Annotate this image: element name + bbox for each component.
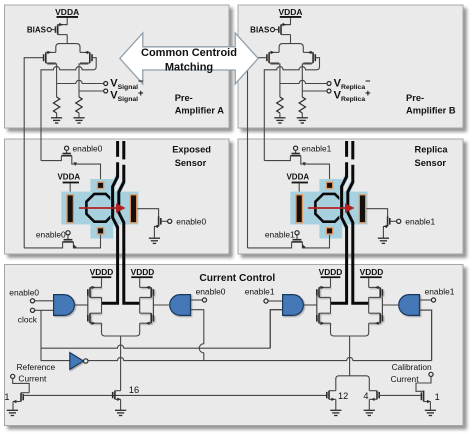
svg-text:enable1: enable1 bbox=[265, 229, 295, 239]
NMOS N2 (right half) bbox=[369, 313, 383, 323]
svg-text:VDDD: VDDD bbox=[90, 267, 114, 277]
ground T2 (Replica Sensor) bbox=[378, 238, 389, 243]
electrode right (Exposed Sensor) bbox=[130, 195, 136, 223]
wire M3 gate return to sensor (A) bbox=[41, 58, 96, 161]
ground MR1 bbox=[7, 410, 18, 415]
wire clock line A bbox=[41, 345, 270, 348]
wire clock line A to right G1 bbox=[270, 310, 282, 349]
electrode left (Exposed Sensor) bbox=[67, 195, 73, 223]
wire VDDD2 to P2 (left half) bbox=[139, 278, 141, 287]
thick heater wire left (replica) bbox=[342, 176, 347, 228]
electrode top (Replica Sensor) bbox=[326, 182, 332, 188]
transistor MR1 (1x reference) bbox=[20, 393, 22, 402]
sensor octagon heater (Replica Sensor) bbox=[315, 194, 342, 222]
wire tail node (A) bbox=[66, 35, 68, 44]
wire output plus (A) bbox=[79, 90, 104, 92]
svg-text:Exposed: Exposed bbox=[172, 145, 211, 155]
wire N1 source down (right half) bbox=[330, 323, 332, 332]
wire VDDA to left electrode (Exposed Sensor) bbox=[69, 183, 71, 194]
svg-text:1: 1 bbox=[4, 392, 9, 402]
block Current Control bbox=[5, 265, 464, 426]
wire tail stem down (right half) bbox=[349, 336, 351, 376]
wire VDDD1 to P1 (left half) bbox=[101, 278, 103, 287]
NMOS N2 (left half) bbox=[140, 313, 154, 323]
port VSignal minus (A) bbox=[104, 82, 108, 86]
enable transistor T2 right (Replica Sensor) bbox=[366, 209, 387, 217]
electrode bottom (Exposed Sensor) bbox=[97, 228, 103, 234]
clock input port (left half) bbox=[35, 309, 54, 311]
svg-text:Sensor: Sensor bbox=[175, 158, 207, 168]
red arrow (Exposed Sensor) bbox=[79, 207, 118, 209]
electrode right (Replica Sensor) bbox=[359, 195, 365, 223]
AND gate G2 mirrored (right half) bbox=[399, 295, 420, 316]
svg-text:enable0: enable0 bbox=[36, 229, 66, 239]
resistor R1 (A) bbox=[53, 97, 59, 113]
wire VDDD1 to P1 (right half) bbox=[330, 278, 332, 287]
ground R2 (A) bbox=[73, 118, 84, 123]
port VReplica plus (B) bbox=[327, 89, 331, 93]
svg-text:BIAS: BIAS bbox=[27, 26, 47, 35]
svg-text:Reference: Reference bbox=[17, 362, 56, 372]
AND gate G1 (right half) bbox=[283, 295, 304, 316]
svg-text:1: 1 bbox=[435, 392, 440, 402]
svg-text:Calibration: Calibration bbox=[392, 362, 432, 372]
svg-text:enable1: enable1 bbox=[302, 144, 332, 154]
block Pre-Amplifier B bbox=[238, 5, 463, 128]
ground MC1 bbox=[425, 410, 436, 415]
svg-text:VDDD: VDDD bbox=[360, 267, 384, 277]
wire M3 drain (B) bbox=[302, 63, 313, 97]
wire VDDA to left electrode (Replica Sensor) bbox=[298, 183, 300, 194]
wire G2 output (right half) bbox=[382, 304, 399, 306]
svg-text:enable0: enable0 bbox=[196, 287, 226, 297]
svg-text:VDDD: VDDD bbox=[319, 267, 343, 277]
wire line B to right G2 bbox=[420, 310, 432, 361]
wire output minus (B) bbox=[280, 80, 327, 83]
wire tail stem down (left half) bbox=[120, 336, 122, 391]
wire G2 output (left half) bbox=[153, 304, 170, 306]
AND gate G2 mirrored (left half) bbox=[170, 295, 191, 316]
wire tail node (B) bbox=[290, 35, 292, 44]
wire T1 left (Exposed Sensor) bbox=[41, 156, 61, 161]
wire M3 gate return to sensor (B) bbox=[264, 58, 319, 161]
sensor octagon heater (Exposed Sensor) bbox=[86, 194, 113, 222]
svg-text:Pre-: Pre- bbox=[406, 93, 424, 103]
wire VDDD2 to P2 (right half) bbox=[368, 278, 370, 287]
wire G2 lower input (left half) bbox=[191, 310, 204, 361]
wire T3 right to bottom electrode (Replica Sensor) bbox=[302, 235, 329, 248]
CMOS pair left gates (left half) bbox=[87, 289, 89, 321]
NMOS N1 (right half) bbox=[317, 313, 331, 323]
wire P1/N1 drain node (left half) bbox=[101, 297, 103, 313]
wire T3 right to bottom electrode (Exposed Sensor) bbox=[73, 235, 100, 248]
svg-text:Amplifier B: Amplifier B bbox=[406, 106, 456, 116]
ground R2 (B) bbox=[297, 118, 308, 123]
wire N2 source down (right half) bbox=[368, 323, 370, 332]
NMOS N1 (left half) bbox=[88, 313, 102, 323]
red arrow (Replica Sensor) bbox=[308, 207, 347, 209]
CMOS pair right gates (right half) bbox=[381, 289, 383, 321]
transistor M4 (4x replica) bbox=[376, 391, 378, 400]
wire T2 source to ground (Exposed Sensor) bbox=[154, 226, 158, 238]
BIAS port (B) bbox=[273, 29, 279, 31]
enable0 input port G2 (left half) bbox=[191, 299, 203, 301]
block Pre-Amplifier A bbox=[5, 5, 230, 128]
wire G1 output (right half) bbox=[304, 304, 317, 306]
wire N2 source down (left half) bbox=[139, 323, 141, 332]
wire sources join bar (left half) bbox=[102, 333, 140, 337]
svg-text:12: 12 bbox=[338, 391, 348, 401]
thick heater wire right (replica) bbox=[348, 182, 353, 223]
svg-text:BIAS: BIAS bbox=[250, 26, 270, 35]
wire T3 left (Replica Sensor) bbox=[248, 242, 292, 248]
PMOS P2 (right half) bbox=[369, 287, 383, 297]
PMOS P1 (left half) bbox=[88, 287, 102, 297]
wire cal port to MC1 drain bbox=[416, 377, 431, 392]
sensor body (Replica Sensor) bbox=[290, 192, 367, 225]
svg-text:enable1: enable1 bbox=[425, 287, 455, 297]
wire inverted clock line B bbox=[88, 357, 432, 360]
wire VDDA to M1 (A) bbox=[58, 18, 67, 25]
diff pair right transistor M3 (A) bbox=[89, 52, 91, 63]
wire calibration gate bus bbox=[379, 394, 421, 396]
double arrow Common Centroid Matching bbox=[120, 33, 258, 84]
wire P2/N2 drain node (left half) bbox=[139, 297, 141, 313]
BIAS port (A) bbox=[50, 29, 56, 31]
enable1 input port G1 (right half) bbox=[268, 300, 282, 302]
wire T1 right to top electrode (Exposed Sensor) bbox=[72, 156, 101, 182]
bias transistor M1 (A) bbox=[57, 25, 59, 35]
svg-text:Matching: Matching bbox=[165, 62, 213, 74]
svg-text:Current Control: Current Control bbox=[199, 273, 275, 284]
wire P1/N1 drain node (right half) bbox=[330, 297, 332, 313]
wire 12/4 drain node bbox=[336, 376, 370, 391]
CMOS pair left gates (right half) bbox=[316, 289, 318, 321]
svg-text:enable1: enable1 bbox=[245, 287, 275, 297]
transistor M16 (16x exposed) bbox=[114, 391, 116, 400]
thick heater wire left (exposed) bbox=[113, 176, 118, 228]
svg-text:clock: clock bbox=[18, 314, 38, 324]
thick heater wire right (exposed) bbox=[119, 182, 124, 223]
svg-text:Current: Current bbox=[18, 373, 47, 383]
resistor R2 (B) bbox=[299, 97, 305, 113]
AND gate G1 (left half) bbox=[54, 295, 75, 316]
svg-text:VDDA: VDDA bbox=[57, 172, 80, 181]
diff pair right transistor M3 (B) bbox=[312, 52, 314, 63]
wire M2 drain (B) bbox=[269, 63, 280, 97]
electrode bottom (Replica Sensor) bbox=[326, 228, 332, 234]
svg-text:enable0: enable0 bbox=[176, 216, 206, 226]
svg-text:VDDA: VDDA bbox=[278, 7, 302, 17]
wire M2 gate down to sensor (A) bbox=[24, 58, 43, 248]
svg-text:VDDA: VDDA bbox=[55, 7, 79, 17]
wire T3 left (Exposed Sensor) bbox=[24, 242, 62, 248]
svg-text:enable1: enable1 bbox=[405, 216, 435, 226]
wire G2 lower input (right half) bbox=[420, 310, 432, 361]
inverter U1 bbox=[70, 353, 84, 370]
electrode top (Exposed Sensor) bbox=[97, 182, 103, 188]
sensor body (Exposed Sensor) bbox=[61, 192, 138, 225]
block Replica Sensor bbox=[238, 139, 463, 254]
svg-text:Replica: Replica bbox=[415, 145, 449, 155]
port VSignal plus (A) bbox=[104, 89, 108, 93]
ground M4 bbox=[364, 410, 375, 415]
ground R1 (B) bbox=[274, 118, 285, 123]
PMOS P1 (right half) bbox=[317, 287, 331, 297]
CMOS pair right gates (left half) bbox=[152, 289, 154, 321]
svg-text:Current: Current bbox=[391, 374, 420, 384]
diff pair left transistor M2 (B) bbox=[268, 52, 270, 63]
wire G1 lower input from clock line (right half) bbox=[270, 310, 282, 349]
ground T2 (Exposed Sensor) bbox=[149, 238, 160, 243]
diff pair left transistor M2 (A) bbox=[45, 52, 47, 63]
enable1 input port G2 (right half) bbox=[420, 299, 432, 301]
transistor MC1 (1x calibration) bbox=[423, 391, 425, 402]
wire P2/N2 drain node (right half) bbox=[368, 297, 370, 313]
resistor R1 (B) bbox=[277, 97, 283, 113]
enable0 input port G1 (left half) bbox=[35, 300, 54, 302]
ground M12 bbox=[330, 410, 341, 415]
wire M2 gate down to sensor (B) bbox=[248, 58, 267, 248]
transistor M12 (12x replica) bbox=[328, 391, 330, 400]
block Exposed Sensor bbox=[5, 139, 230, 254]
wire clock branch down (left half) bbox=[41, 310, 70, 360]
svg-text:Amplifier A: Amplifier A bbox=[175, 106, 225, 116]
wire ref port to M16 drain bbox=[13, 379, 30, 393]
wire M3 drain (A) bbox=[79, 63, 90, 97]
svg-text:Sensor: Sensor bbox=[415, 158, 447, 168]
svg-text:16: 16 bbox=[129, 385, 139, 395]
ground M16 bbox=[115, 410, 126, 415]
wire G1 output (left half) bbox=[75, 304, 88, 306]
wire sources join bar (right half) bbox=[331, 333, 369, 337]
svg-text:Common Centroid: Common Centroid bbox=[141, 47, 237, 59]
wire M2 drain (A) bbox=[46, 63, 57, 97]
wire T1 right to top electrode (Replica Sensor) bbox=[301, 156, 330, 182]
svg-text:Pre-: Pre- bbox=[175, 93, 193, 103]
ground R1 (A) bbox=[51, 118, 62, 123]
wire VDDA to M1 (B) bbox=[281, 18, 291, 25]
port VReplica minus (B) bbox=[327, 82, 331, 86]
enable transistor T2 right (Exposed Sensor) bbox=[137, 209, 158, 217]
wire T1 left (Replica Sensor) bbox=[264, 156, 290, 161]
wire mirror gate bus bbox=[23, 394, 326, 396]
resistor R2 (A) bbox=[76, 97, 82, 113]
svg-text:VDDA: VDDA bbox=[286, 172, 309, 181]
wire output minus (A) bbox=[57, 80, 104, 83]
electrode left (Replica Sensor) bbox=[296, 195, 302, 223]
wire output plus (B) bbox=[302, 90, 327, 92]
wire T2 source to ground (Replica Sensor) bbox=[383, 226, 387, 238]
bias transistor M1 (B) bbox=[280, 25, 282, 35]
wire N1 source down (left half) bbox=[101, 323, 103, 332]
PMOS P2 (left half) bbox=[140, 287, 154, 297]
svg-text:4: 4 bbox=[363, 391, 368, 401]
svg-text:enable0: enable0 bbox=[73, 144, 103, 154]
svg-text:enable0: enable0 bbox=[9, 288, 39, 298]
svg-text:VDDD: VDDD bbox=[131, 267, 155, 277]
